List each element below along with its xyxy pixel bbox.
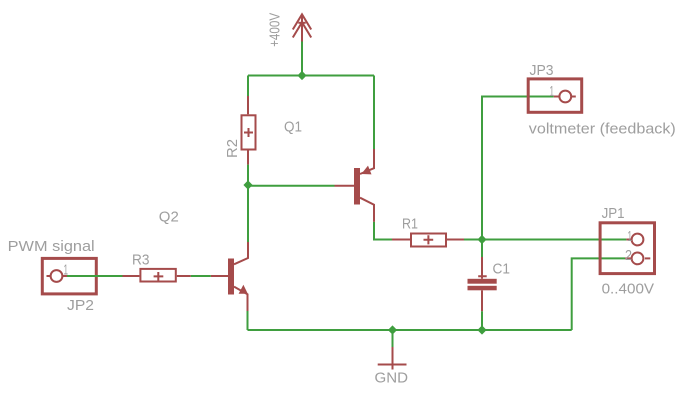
connector JP2: [42, 258, 96, 294]
wire junction3 up to JP3 corner: [482, 97, 554, 240]
svg-text:1: 1: [550, 83, 555, 100]
junction node C1 bottom rail: [477, 325, 486, 334]
capacitor C1: [468, 257, 497, 311]
junction node GND: [388, 325, 397, 334]
wire bottom rail: [248, 329, 572, 331]
connector JP1: [600, 223, 654, 274]
wire junction2 down to Q2 collector: [247, 185, 249, 242]
wire rail down to Q1 emitter: [373, 76, 375, 150]
wire junction3 down to C1: [481, 240, 483, 258]
svg-text:R2: R2: [224, 139, 241, 158]
wire R2 to junction2: [247, 165, 249, 185]
svg-text:GND: GND: [375, 369, 409, 386]
wire GND stem: [392, 330, 394, 347]
wire R1 to junction3: [464, 239, 482, 241]
wire Q2 emitter to bottom rail: [247, 311, 249, 330]
connector JP3: [528, 79, 582, 112]
wire rail down to R2: [247, 76, 249, 97]
svg-text:0..400V: 0..400V: [602, 281, 655, 298]
resistor R1: [392, 234, 464, 247]
svg-text:JP1: JP1: [602, 205, 625, 222]
wire JP2 to R3: [67, 275, 123, 277]
svg-text:R3: R3: [132, 251, 150, 268]
resistor R2: [242, 96, 256, 165]
transistor Q2: [211, 242, 248, 311]
wire junction3 right to JP1 pin 1: [482, 239, 626, 241]
wire C1 to bottom rail: [481, 311, 483, 330]
wire top rail: [248, 75, 374, 77]
svg-text:PWM signal: PWM signal: [8, 238, 95, 255]
resistor R3: [123, 269, 191, 282]
wire R3 to Q2 base: [191, 275, 211, 277]
power symbol +400V: [293, 14, 311, 41]
svg-text:Q1: Q1: [284, 119, 302, 136]
svg-text:1: 1: [628, 228, 633, 245]
wire junction2 to Q1 base: [248, 185, 335, 187]
wire bottom rail up to JP1 pin 2: [572, 258, 626, 330]
svg-text:+400V: +400V: [267, 13, 284, 47]
junction top rail: [297, 71, 306, 80]
ground symbol: [378, 347, 407, 370]
svg-text:JP3: JP3: [530, 62, 554, 79]
svg-text:voltmeter (feedback): voltmeter (feedback): [529, 120, 676, 137]
transistor Q1: [335, 149, 375, 222]
svg-text:JP2: JP2: [67, 297, 94, 314]
svg-text:C1: C1: [493, 260, 511, 277]
svg-text:2: 2: [625, 247, 632, 264]
wire +400V stem to junction: [301, 42, 303, 76]
svg-text:R1: R1: [402, 216, 418, 233]
svg-text:Q2: Q2: [159, 209, 179, 226]
wire Q1 collector to R1: [374, 222, 392, 240]
junction node below R2: [243, 180, 252, 189]
junction node at R1 / C1 / JP1: [477, 235, 486, 244]
